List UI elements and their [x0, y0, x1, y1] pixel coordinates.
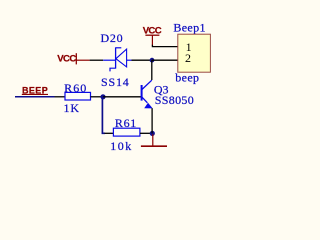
wire collector node down	[151, 60, 153, 80]
power port VCC left	[57, 53, 89, 64]
diode D20 (schottky)	[101, 31, 132, 89]
pin R61.2	[140, 132, 152, 134]
net label BEEP	[22, 85, 48, 95]
svg-text:SS8050: SS8050	[155, 93, 194, 107]
transistor Q3	[142, 80, 195, 108]
node base junction	[100, 94, 105, 99]
svg-text:Beep1: Beep1	[173, 20, 205, 34]
svg-text:D20: D20	[101, 31, 124, 45]
wire base node down to R61	[102, 97, 105, 134]
pin Q3 emitter wire down	[151, 108, 153, 133]
node collector junction	[150, 58, 155, 63]
wire VCC to Beep1.1 / pin Beep1.1	[152, 45, 177, 47]
pin R60.2	[91, 96, 104, 98]
wire BEEP to R60	[15, 96, 55, 98]
svg-text:2: 2	[185, 51, 191, 65]
svg-text:R60: R60	[64, 81, 87, 95]
pin R61.1	[105, 132, 114, 134]
svg-text:VCC: VCC	[57, 54, 76, 65]
pin Beep1.2	[152, 59, 178, 61]
pin D20 cathode	[90, 59, 104, 61]
svg-text:beep: beep	[175, 71, 199, 85]
svg-text:SS14: SS14	[101, 75, 130, 89]
pin D20 anode / wire to node	[132, 59, 152, 61]
node emitter junction	[150, 131, 155, 136]
power port VCC top	[143, 25, 162, 45]
resistor R61	[110, 116, 140, 153]
svg-text:R61: R61	[115, 116, 137, 130]
connector Beep1	[173, 20, 210, 84]
pin Q3 base	[103, 96, 141, 98]
resistor R60	[64, 81, 91, 115]
pin R60.1	[55, 96, 66, 98]
ground power port	[141, 134, 167, 146]
svg-text:1K: 1K	[64, 101, 80, 115]
svg-text:10k: 10k	[110, 139, 133, 153]
